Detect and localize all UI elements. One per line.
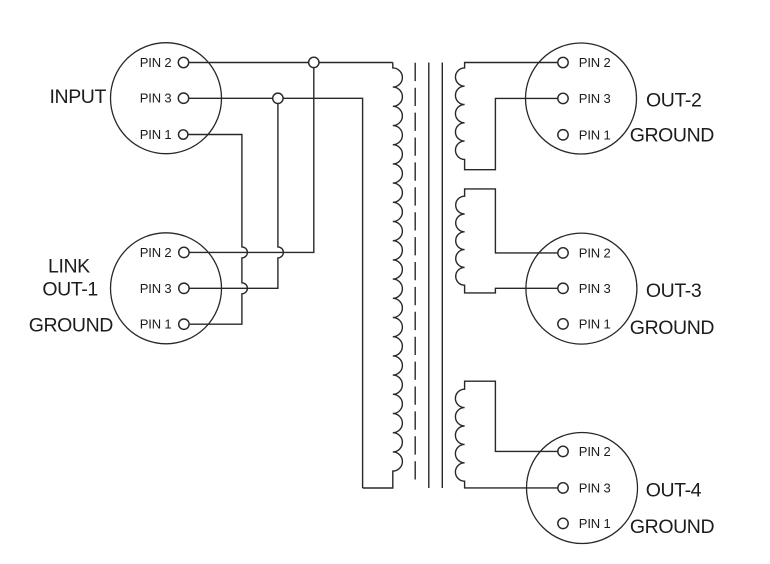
svg-text:PIN 2: PIN 2: [579, 444, 611, 459]
wire: LINK OUT-1 pin 2 up to pin-2 junction node: [189, 62, 314, 252]
transformer primary winding T1-P: [363, 63, 403, 489]
svg-text:GROUND: GROUND: [630, 516, 715, 538]
svg-text:PIN 1: PIN 1: [579, 127, 611, 142]
J5 pin 2 contact: [558, 446, 568, 456]
connector J1 INPUT (XLR body): [111, 43, 222, 154]
transformer core line 2: [441, 63, 443, 489]
J3 pin 2 contact: [558, 57, 568, 67]
svg-text:PIN 2: PIN 2: [579, 245, 611, 260]
transformer secondary winding T1-S2 and wires to OUT-3 pins 2,3: [456, 189, 558, 293]
svg-text:PIN 3: PIN 3: [579, 281, 611, 296]
svg-text:INPUT: INPUT: [50, 86, 107, 108]
svg-text:PIN 1: PIN 1: [140, 127, 172, 142]
J1 pin 3 contact: [178, 93, 188, 103]
connector J5 OUT-4 (XLR body): [527, 433, 638, 544]
svg-text:PIN 3: PIN 3: [140, 91, 172, 106]
svg-text:LINK: LINK: [48, 255, 90, 277]
J1 pin 2 contact: [178, 57, 188, 67]
svg-text:PIN 1: PIN 1: [140, 317, 172, 332]
node: junction on pin-2 net: [309, 57, 319, 67]
J3 pin 3 contact: [558, 93, 568, 103]
J5 pin 1 contact: [558, 518, 568, 528]
J2 pin 3 contact: [179, 283, 189, 293]
transformer secondary winding T1-S1 and wires to OUT-2 pins 2,3: [455, 63, 557, 170]
transformer secondary winding T1-S3 and wires to OUT-4 pins 2,3: [455, 381, 557, 488]
connector J2 LINK OUT-1 (XLR body): [111, 233, 222, 344]
svg-text:PIN 3: PIN 3: [579, 480, 611, 495]
wire: INPUT pin 1 to LINK OUT-1 pin 1 (two hops): [188, 135, 247, 325]
transformer core line 1: [428, 63, 430, 489]
J3 pin 1 contact: [558, 130, 568, 140]
svg-text:PIN 1: PIN 1: [579, 516, 611, 531]
svg-text:PIN 1: PIN 1: [579, 316, 611, 331]
svg-text:OUT-4: OUT-4: [646, 479, 702, 501]
transformer shield (dashed): [414, 63, 416, 486]
svg-text:PIN 2: PIN 2: [140, 245, 172, 260]
svg-text:GROUND: GROUND: [29, 314, 114, 336]
connector J4 OUT-3 (XLR body): [526, 233, 637, 344]
J4 pin 2 contact: [558, 248, 568, 258]
svg-text:OUT-1: OUT-1: [42, 278, 97, 300]
wire: pin-3 junction down to LINK OUT-1 pin 3 (hop at crossing): [189, 98, 283, 288]
svg-text:PIN 2: PIN 2: [579, 55, 611, 70]
svg-text:OUT-2: OUT-2: [646, 89, 701, 111]
J1 pin 1 contact: [179, 130, 188, 139]
node: junction on pin-3 net: [273, 93, 283, 103]
J5 pin 3 contact: [558, 483, 568, 493]
J4 pin 3 contact: [558, 283, 568, 293]
svg-text:OUT-3: OUT-3: [646, 280, 701, 302]
J2 pin 2 contact: [179, 247, 189, 257]
svg-text:GROUND: GROUND: [630, 125, 715, 147]
svg-text:PIN 3: PIN 3: [579, 91, 611, 106]
wire: transformer primary bottom up to INPUT pin 3: [189, 98, 363, 488]
svg-text:PIN 2: PIN 2: [140, 55, 172, 70]
wire: INPUT pin 2 to transformer primary top: [189, 62, 393, 64]
svg-text:PIN 3: PIN 3: [140, 281, 172, 296]
connector J3 OUT-2 (XLR body): [526, 43, 637, 154]
J4 pin 1 contact: [558, 319, 568, 329]
J2 pin 1 contact: [179, 319, 189, 329]
svg-text:GROUND: GROUND: [630, 317, 715, 339]
